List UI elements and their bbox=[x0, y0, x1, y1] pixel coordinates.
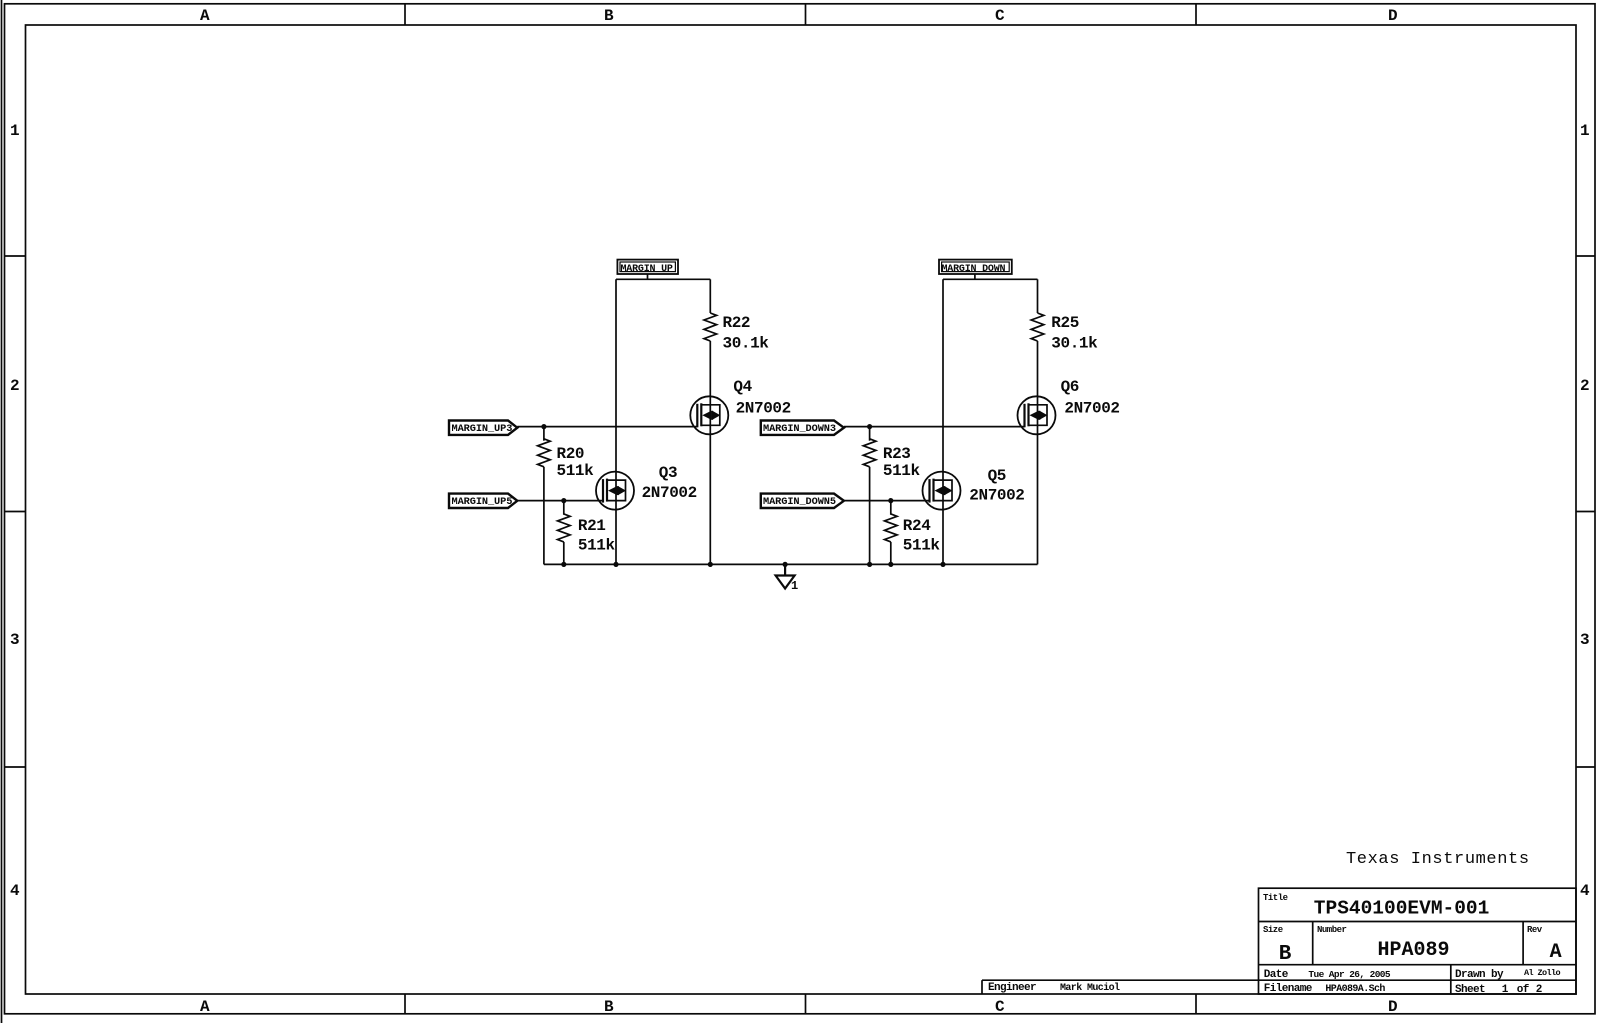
node MARGIN_DOWN3 flag bbox=[761, 421, 844, 436]
junction R24 bottom bbox=[888, 562, 893, 567]
wire MARGIN_DOWN5 to Q5 gate bbox=[844, 500, 930, 502]
svg-text:511k: 511k bbox=[557, 462, 595, 480]
resistor R21 bbox=[558, 514, 571, 542]
node MARGIN_UP label box bbox=[617, 260, 678, 274]
svg-text:Al Zollo: Al Zollo bbox=[1524, 968, 1561, 978]
wire R23 top lead bbox=[869, 427, 871, 441]
svg-text:R24: R24 bbox=[903, 517, 931, 535]
junction R24 top bbox=[888, 498, 893, 503]
wire MARGIN_UP5 to Q3 gate bbox=[517, 500, 603, 502]
svg-text:R25: R25 bbox=[1051, 314, 1079, 332]
svg-text:3: 3 bbox=[10, 631, 20, 649]
svg-text:D: D bbox=[1388, 7, 1398, 25]
junction R23 top bbox=[867, 424, 872, 429]
svg-text:B: B bbox=[604, 7, 614, 25]
wire MARGIN_DOWN3 to Q6 gate bbox=[844, 426, 1025, 428]
svg-text:Engineer: Engineer bbox=[988, 982, 1036, 994]
svg-text:of: of bbox=[1517, 984, 1530, 996]
svg-text:HPA089A.Sch: HPA089A.Sch bbox=[1325, 983, 1385, 995]
svg-text:2N7002: 2N7002 bbox=[642, 484, 697, 502]
svg-text:TPS40100EVM-001: TPS40100EVM-001 bbox=[1314, 898, 1490, 920]
svg-text:30.1k: 30.1k bbox=[723, 335, 770, 353]
junction R21 bottom bbox=[561, 562, 566, 567]
svg-text:1: 1 bbox=[1580, 122, 1590, 140]
svg-text:MARGIN_UP5: MARGIN_UP5 bbox=[452, 496, 513, 508]
svg-text:4: 4 bbox=[10, 882, 20, 900]
svg-text:D: D bbox=[1388, 998, 1398, 1016]
wire R21 top lead bbox=[563, 501, 565, 515]
svg-text:2N7002: 2N7002 bbox=[969, 487, 1024, 505]
node MARGIN_UP3 flag bbox=[449, 421, 517, 436]
svg-text:Title: Title bbox=[1263, 893, 1288, 903]
svg-text:B: B bbox=[1279, 943, 1292, 966]
resistor R23 bbox=[863, 439, 876, 467]
junction R20 top bbox=[541, 424, 546, 429]
svg-text:2: 2 bbox=[10, 377, 20, 395]
wire R24 top lead bbox=[890, 501, 892, 515]
wire ground bus bbox=[544, 563, 1038, 565]
wire R22/Q4 vertical top bbox=[709, 279, 711, 313]
resistor R22 bbox=[704, 313, 717, 341]
wire MARGIN_DOWN rail bbox=[943, 278, 1038, 280]
svg-text:MARGIN_DOWN: MARGIN_DOWN bbox=[942, 264, 1006, 275]
wire Q5 drain-source vertical bbox=[942, 279, 944, 564]
resistor R24 bbox=[885, 514, 898, 542]
node MARGIN_UP5 flag bbox=[449, 494, 517, 508]
svg-text:B: B bbox=[604, 998, 614, 1016]
resistor R20 bbox=[538, 439, 551, 467]
junction Q4 source bbox=[708, 562, 713, 567]
svg-text:Drawn by: Drawn by bbox=[1455, 969, 1504, 981]
svg-text:511k: 511k bbox=[883, 462, 921, 480]
svg-text:R20: R20 bbox=[557, 445, 585, 463]
svg-text:Sheet: Sheet bbox=[1455, 984, 1485, 996]
svg-text:Tue Apr 26, 2005: Tue Apr 26, 2005 bbox=[1308, 969, 1391, 980]
svg-text:C: C bbox=[995, 7, 1005, 25]
node MARGIN_DOWN5 flag bbox=[761, 494, 844, 508]
wire Q3 drain-source vertical bbox=[615, 279, 617, 564]
wire R20 bottom lead bbox=[543, 467, 545, 565]
svg-text:511k: 511k bbox=[903, 537, 941, 555]
svg-text:1: 1 bbox=[10, 122, 20, 140]
wire R25 to Q6 and Q6 source down bbox=[1037, 341, 1039, 564]
svg-text:1: 1 bbox=[1502, 984, 1509, 996]
wire R23 bottom lead bbox=[869, 467, 871, 565]
svg-text:Mark Muciol: Mark Muciol bbox=[1060, 982, 1120, 994]
transistor Q4 bbox=[690, 396, 728, 434]
svg-text:Date: Date bbox=[1264, 969, 1289, 981]
junction Q3 source bbox=[613, 562, 618, 567]
svg-text:2N7002: 2N7002 bbox=[1064, 400, 1119, 418]
node MARGIN_DOWN label box bbox=[939, 260, 1012, 274]
svg-text:MARGIN_UP3: MARGIN_UP3 bbox=[452, 423, 513, 435]
svg-text:HPA089: HPA089 bbox=[1378, 939, 1450, 962]
wire MARGIN_DOWN stub bbox=[974, 274, 976, 279]
junction Q5 source bbox=[940, 562, 945, 567]
svg-text:30.1k: 30.1k bbox=[1051, 335, 1098, 353]
transistor Q3 bbox=[596, 472, 634, 510]
transistor Q5 bbox=[923, 472, 961, 510]
svg-text:1: 1 bbox=[791, 579, 798, 593]
svg-text:4: 4 bbox=[1580, 882, 1590, 900]
svg-text:C: C bbox=[995, 998, 1005, 1016]
transistor Q6 bbox=[1018, 396, 1056, 434]
junction R23 bottom bbox=[867, 562, 872, 567]
svg-text:A: A bbox=[1550, 941, 1562, 964]
svg-text:A: A bbox=[200, 998, 210, 1016]
svg-text:R23: R23 bbox=[883, 445, 911, 463]
resistor R25 bbox=[1031, 313, 1044, 341]
svg-text:Number: Number bbox=[1317, 925, 1347, 935]
wire MARGIN_UP3 to Q4 gate bbox=[517, 426, 697, 428]
wire R21 bottom lead bbox=[563, 542, 565, 565]
svg-text:Q5: Q5 bbox=[988, 467, 1006, 485]
wire R25/Q6 vertical top bbox=[1037, 279, 1039, 313]
wire MARGIN_UP stub bbox=[647, 274, 649, 279]
wire R24 bottom lead bbox=[890, 542, 892, 565]
title block bbox=[982, 888, 1576, 994]
svg-text:Size: Size bbox=[1263, 925, 1283, 935]
svg-text:2: 2 bbox=[1580, 377, 1590, 395]
svg-text:511k: 511k bbox=[578, 537, 616, 555]
ground symbol bbox=[776, 564, 795, 588]
svg-text:Q4: Q4 bbox=[733, 378, 752, 396]
wire MARGIN_UP rail bbox=[616, 278, 710, 280]
svg-text:MARGIN_UP: MARGIN_UP bbox=[621, 264, 673, 275]
svg-text:2: 2 bbox=[1536, 984, 1542, 996]
svg-text:Q6: Q6 bbox=[1061, 378, 1079, 396]
wire R20 top lead bbox=[543, 427, 545, 441]
junction ground stub bbox=[783, 562, 788, 567]
svg-text:2N7002: 2N7002 bbox=[736, 400, 791, 418]
svg-text:Texas Instruments: Texas Instruments bbox=[1346, 850, 1530, 869]
svg-text:Rev: Rev bbox=[1527, 925, 1543, 935]
svg-text:R21: R21 bbox=[578, 517, 606, 535]
wire R22 to Q4 and Q4 source down bbox=[709, 341, 711, 564]
svg-text:MARGIN_DOWN5: MARGIN_DOWN5 bbox=[763, 496, 836, 508]
junction R21 top bbox=[561, 498, 566, 503]
svg-text:MARGIN_DOWN3: MARGIN_DOWN3 bbox=[763, 423, 836, 435]
svg-text:R22: R22 bbox=[723, 314, 751, 332]
svg-text:Filename: Filename bbox=[1264, 983, 1313, 995]
svg-text:Q3: Q3 bbox=[659, 464, 677, 482]
svg-text:A: A bbox=[200, 7, 210, 25]
svg-text:3: 3 bbox=[1580, 631, 1590, 649]
